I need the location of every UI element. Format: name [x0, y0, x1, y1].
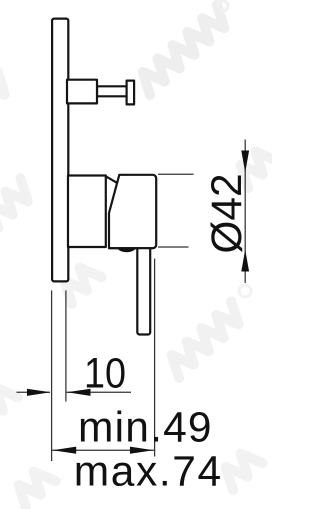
svg-text:Ø42: Ø42: [204, 173, 251, 253]
svg-text:10: 10: [84, 351, 126, 398]
svg-text:max.74: max.74: [74, 449, 223, 496]
svg-text:min.49: min.49: [78, 405, 213, 452]
